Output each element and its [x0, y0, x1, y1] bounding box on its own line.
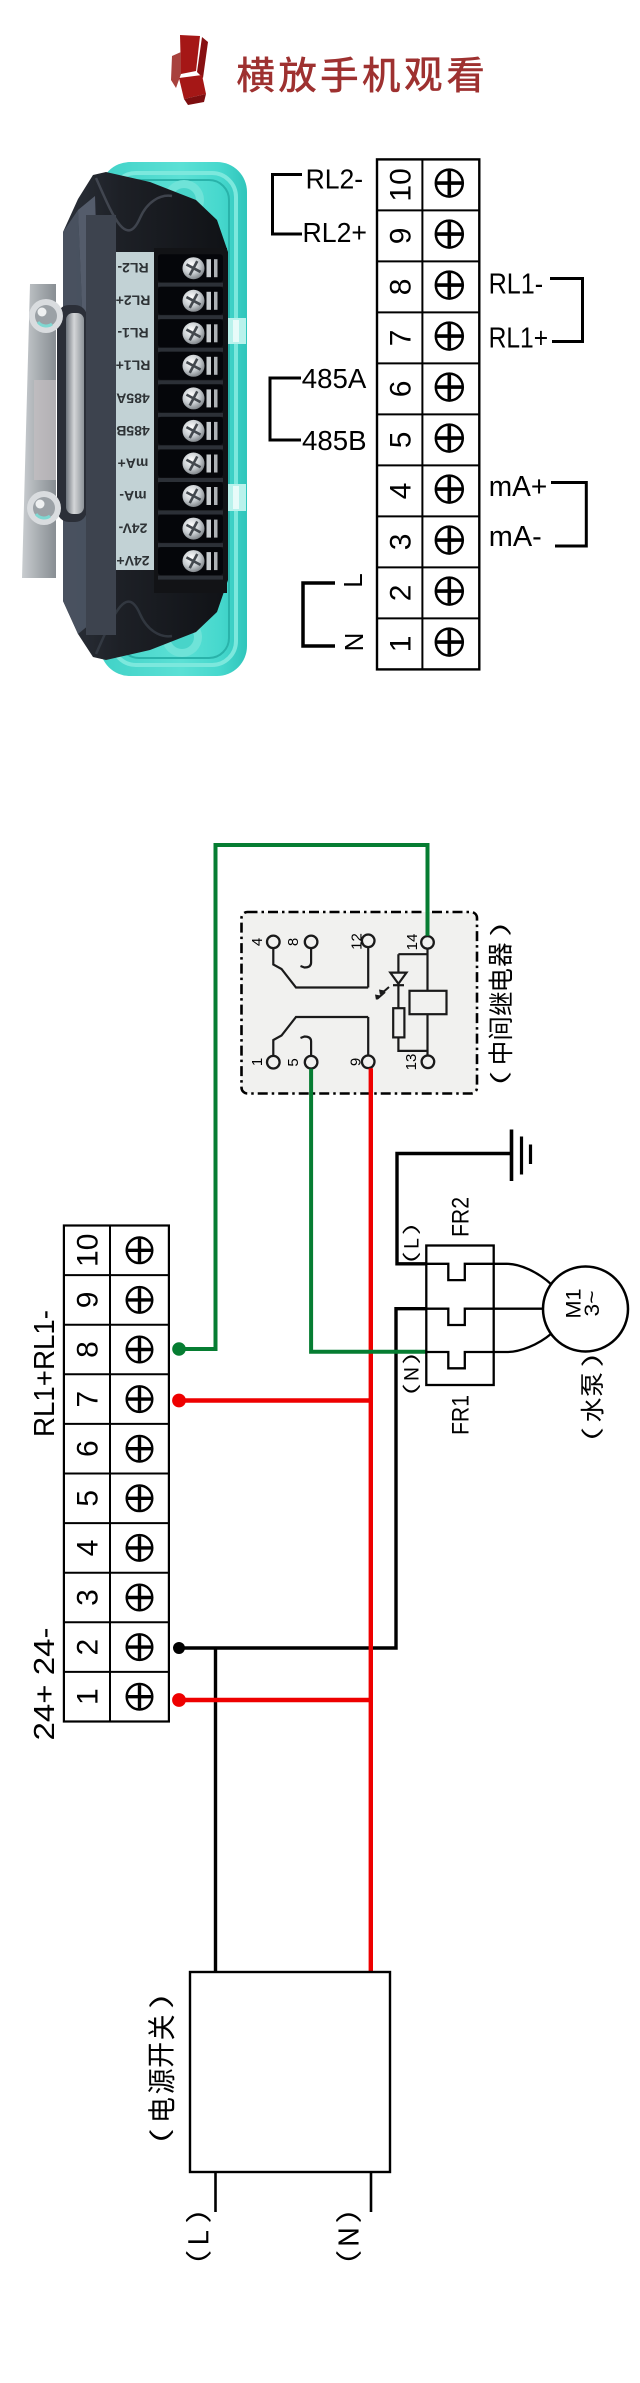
svg-text:RL1+: RL1+ [489, 323, 548, 355]
svg-text:RL2+: RL2+ [116, 293, 151, 309]
svg-text:8: 8 [71, 1341, 104, 1358]
svg-text:FR2: FR2 [448, 1197, 475, 1237]
svg-text:RL2+: RL2+ [303, 217, 368, 248]
svg-text:L: L [338, 573, 368, 587]
svg-text:10: 10 [71, 1234, 104, 1267]
svg-text:6: 6 [71, 1440, 104, 1457]
svg-text:1: 1 [71, 1688, 104, 1705]
svg-text:2: 2 [71, 1639, 104, 1656]
svg-text:10: 10 [384, 168, 417, 201]
svg-text:8: 8 [384, 279, 417, 296]
svg-text:7: 7 [384, 330, 417, 347]
svg-text:2: 2 [384, 585, 417, 602]
svg-text:3: 3 [71, 1589, 104, 1606]
svg-text:485B: 485B [302, 425, 367, 456]
svg-text:1: 1 [249, 1058, 266, 1066]
svg-text:7: 7 [71, 1391, 104, 1408]
svg-text:9: 9 [384, 228, 417, 245]
svg-text:8: 8 [285, 938, 302, 946]
svg-text:13: 13 [403, 1054, 420, 1071]
svg-text:14: 14 [404, 934, 421, 951]
svg-text:9: 9 [348, 1058, 365, 1066]
svg-text:485B: 485B [116, 423, 149, 439]
svg-text:mA-: mA- [119, 488, 147, 504]
svg-text:485A: 485A [116, 390, 149, 406]
svg-text:RL1-: RL1- [117, 325, 148, 341]
svg-text:RL2-: RL2- [117, 260, 148, 276]
svg-text:4: 4 [71, 1540, 104, 1557]
svg-text:24+ 24-: 24+ 24- [29, 1628, 61, 1741]
svg-text:4: 4 [249, 938, 266, 946]
svg-text:5: 5 [384, 432, 417, 449]
svg-text:N: N [339, 633, 369, 652]
svg-text:FR1: FR1 [448, 1395, 475, 1435]
svg-text:RL1+: RL1+ [116, 358, 151, 374]
svg-text:3: 3 [384, 534, 417, 551]
svg-text:mA+: mA+ [489, 471, 548, 503]
svg-text:6: 6 [384, 381, 417, 398]
svg-text:5: 5 [285, 1058, 302, 1066]
svg-text:9: 9 [71, 1292, 104, 1309]
svg-text:12: 12 [349, 933, 366, 950]
svg-text:485A: 485A [302, 363, 367, 394]
svg-text:1: 1 [384, 636, 417, 653]
svg-text:4: 4 [384, 483, 417, 500]
svg-text:mA-: mA- [489, 521, 542, 553]
svg-text:24V-: 24V- [118, 521, 147, 537]
svg-text:5: 5 [71, 1490, 104, 1507]
svg-text:24V+: 24V+ [116, 553, 149, 569]
svg-text:RL2-: RL2- [306, 164, 364, 195]
svg-text:mA+: mA+ [118, 455, 149, 471]
svg-text:3~: 3~ [580, 1291, 604, 1317]
svg-text:RL1-: RL1- [489, 269, 543, 301]
svg-text:RL1+RL1-: RL1+RL1- [29, 1310, 61, 1437]
